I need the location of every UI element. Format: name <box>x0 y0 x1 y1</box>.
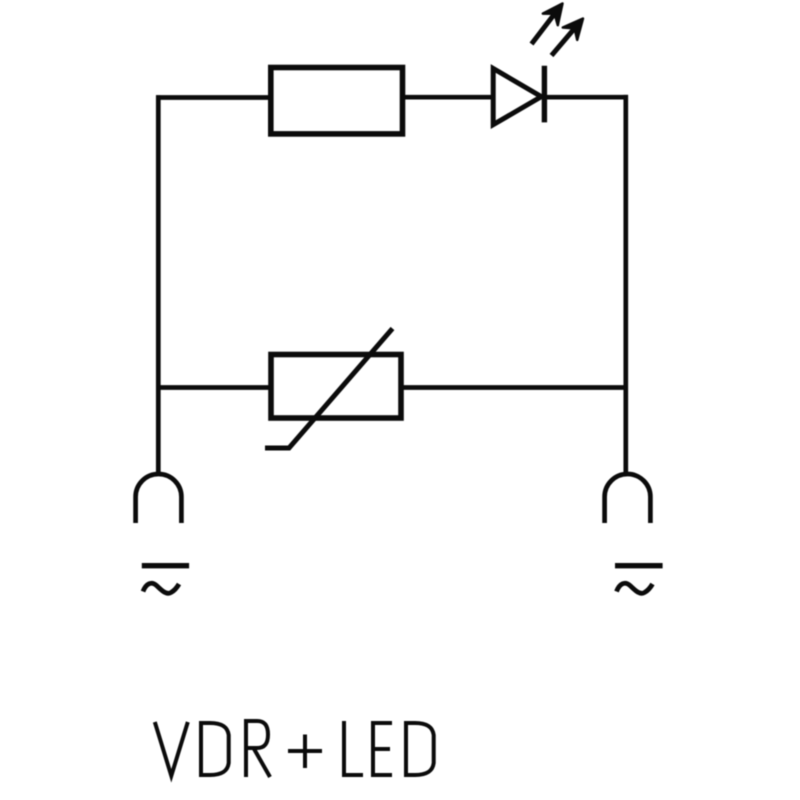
label text VDR <box>155 721 270 777</box>
AC symbol right bar <box>615 563 663 568</box>
label text LED <box>344 721 434 777</box>
LED D1 cathode bar <box>542 66 547 123</box>
AC symbol left tilde <box>143 583 179 593</box>
label text plus <box>288 735 322 769</box>
wire resistor to LED <box>400 95 494 100</box>
AC symbol right tilde <box>617 583 653 593</box>
terminal socket right <box>605 474 651 523</box>
wire middle-right <box>399 385 626 390</box>
AC symbol left bar <box>142 563 189 568</box>
LED light arrow 2 <box>552 19 584 56</box>
terminal socket left <box>136 474 182 523</box>
wire right vertical <box>623 95 628 475</box>
varistor RU1 diagonal stroke <box>265 329 393 449</box>
wire middle-left <box>156 385 273 390</box>
resistor R1 <box>271 68 403 134</box>
wire LED to top-right corner <box>544 95 628 100</box>
LED light arrow 1 <box>532 4 563 45</box>
LED D1 triangle <box>493 69 541 125</box>
wire top-left horizontal <box>156 95 273 100</box>
varistor RU1 body <box>271 355 401 419</box>
wire left vertical <box>156 95 161 475</box>
